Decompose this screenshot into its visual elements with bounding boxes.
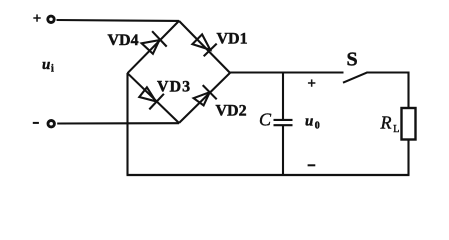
svg-text:u: u [305,114,313,130]
label − (u_0 polarity) [308,164,316,166]
diode VD3 [139,87,164,109]
wire: DC− drop from left vertex to bottom rail [126,73,128,175]
wire: DC+ rail from right vertex to switch [230,71,344,73]
svg-text:+: + [307,76,316,92]
wire: bridge edge top-to-right [179,21,230,73]
wire: bottom input to bridge bottom vertex [57,122,179,124]
svg-text:L: L [393,124,399,135]
svg-text:VD2: VD2 [216,102,247,119]
diode VD2 [194,85,217,105]
wire: bottom rail [127,174,410,176]
svg-text:VD3: VD3 [157,78,191,95]
label − (input polarity) [33,122,39,124]
diode VD1 [192,34,216,56]
wire: bridge edge left-to-bottom [128,73,180,123]
wire: resistor bottom to rail [407,140,409,176]
capacitor C plates [274,120,293,125]
wire: capacitor top lead [282,72,284,120]
svg-text:0: 0 [315,121,320,132]
wire: bridge edge left-to-top [128,21,180,73]
svg-text:VD4: VD4 [108,32,139,49]
wire: top input to bridge top vertex [57,19,180,22]
node: + input terminal [48,16,54,22]
svg-text:VD1: VD1 [217,30,248,47]
wire: right drop to resistor top [407,72,409,109]
svg-text:R: R [380,113,392,133]
resistor R_L [402,108,416,140]
wire: switch to top-right corner [367,71,409,73]
svg-text:u: u [42,57,50,73]
svg-text:S: S [347,49,358,71]
svg-text:C: C [259,110,272,130]
wire: bridge edge bottom-to-right [179,73,230,123]
diode VD4 [142,31,167,54]
svg-text:+: + [33,11,42,27]
svg-text:i: i [51,64,54,75]
wire: capacitor bottom lead [282,125,284,175]
node: − input terminal [48,121,54,127]
switch S blade [343,72,368,82]
